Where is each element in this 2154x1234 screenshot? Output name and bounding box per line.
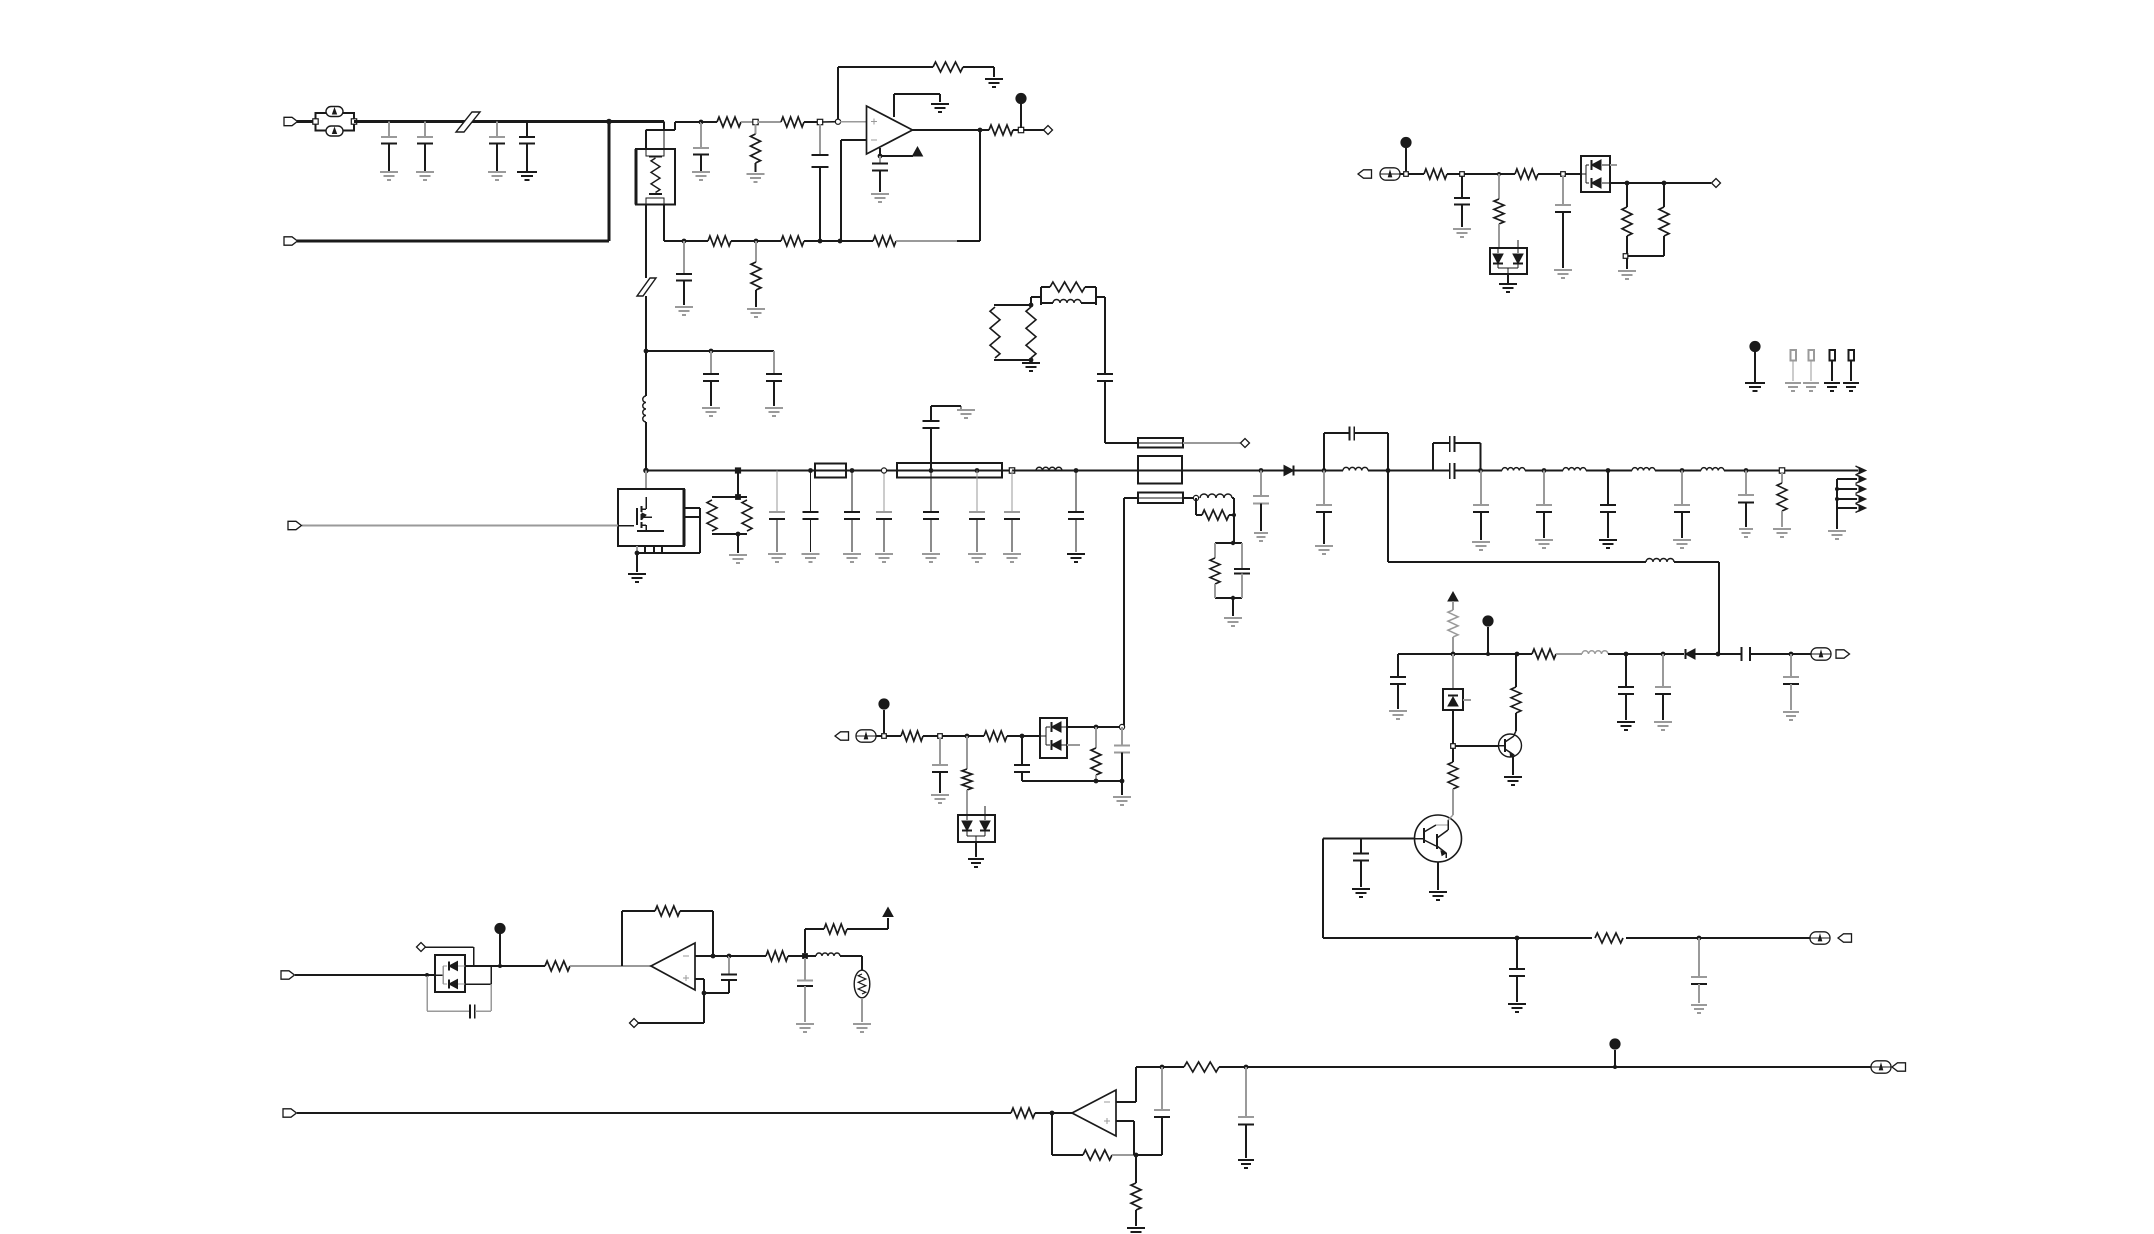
resistor R28 <box>1595 933 1623 943</box>
resistor R27 <box>1532 649 1556 659</box>
ground <box>1508 1004 1526 1012</box>
junction <box>709 349 714 354</box>
wire <box>663 122 665 131</box>
capacitor C34 <box>932 738 948 793</box>
node <box>1561 172 1566 177</box>
wire (Q2 emitter) <box>1512 757 1514 776</box>
capacitor (bus cap x=852) <box>844 471 860 553</box>
junction <box>1134 1153 1139 1158</box>
ground <box>1673 540 1691 548</box>
resistor R18 <box>1777 473 1787 527</box>
junction <box>1697 936 1702 941</box>
wire <box>465 966 491 984</box>
port P6 <box>1838 934 1852 942</box>
wire <box>1556 653 1582 655</box>
junction <box>878 154 883 159</box>
ground <box>765 408 783 416</box>
resistor R21 <box>1515 169 1538 179</box>
junction <box>1478 468 1483 473</box>
resistor R1 (boxed element) <box>636 130 675 205</box>
inductor L9 <box>1632 468 1655 471</box>
wire <box>963 67 994 77</box>
wire <box>704 992 729 994</box>
fuse/filter F1 (dual-element box) <box>313 107 357 137</box>
junction <box>1120 779 1125 784</box>
capacitor (bus cap x=1076) <box>1068 471 1084 553</box>
capacitor C1 <box>381 122 397 172</box>
node <box>736 495 741 537</box>
wire <box>861 998 863 1022</box>
node <box>817 119 822 124</box>
junction <box>838 239 843 244</box>
wire (bus segment) <box>1525 470 1563 472</box>
port (diamond) <box>1712 179 1721 188</box>
wire <box>1322 839 1324 939</box>
junction <box>1322 468 1327 473</box>
inductor L8 <box>1563 468 1586 471</box>
wire (bus segment) <box>646 470 1138 472</box>
wire (bus segment) <box>1182 470 1285 472</box>
bypass loop C16 <box>1324 427 1388 471</box>
ground <box>1003 554 1021 562</box>
junction <box>1386 468 1391 473</box>
wire (Q3 base net) <box>1323 838 1415 840</box>
port P7 <box>835 732 849 740</box>
wire (bus segment) <box>1368 470 1450 472</box>
wire <box>923 735 984 737</box>
wire <box>295 974 435 976</box>
wire (thick return net) <box>297 240 609 243</box>
junction <box>1160 1065 1165 1070</box>
wire <box>1121 781 1123 795</box>
junction <box>965 734 970 739</box>
node <box>736 468 741 473</box>
capacitor C11 (above shunt) <box>923 406 962 471</box>
ground <box>1224 618 1242 626</box>
wire <box>695 979 704 993</box>
ground <box>875 554 893 562</box>
capacitor C29 <box>1655 654 1671 720</box>
junction <box>635 551 640 556</box>
junction <box>727 954 732 959</box>
wire <box>570 965 651 967</box>
ground <box>1352 889 1370 897</box>
resistor R9 <box>781 236 804 246</box>
ground <box>1429 892 1447 900</box>
ground <box>747 309 765 317</box>
wire <box>804 121 820 123</box>
wire <box>1116 1121 1134 1155</box>
resistor R23 <box>1659 183 1669 256</box>
wire <box>1035 1112 1072 1114</box>
wire <box>1400 173 1424 175</box>
node <box>753 119 758 124</box>
resistor R20 <box>1494 174 1504 248</box>
wire <box>297 1112 1011 1114</box>
resistor R36 <box>805 924 888 953</box>
ground <box>1535 540 1553 548</box>
wire <box>1067 727 1122 745</box>
resistor R7 <box>708 236 731 246</box>
wire <box>636 553 638 572</box>
ground <box>1824 383 1840 391</box>
wire <box>646 350 774 352</box>
resistor R4 <box>781 117 804 127</box>
wire <box>1447 173 1515 175</box>
resistor R8 <box>751 241 761 307</box>
ground <box>1315 546 1333 554</box>
wire <box>1674 562 1719 654</box>
resistor R26 <box>1448 748 1458 815</box>
wire (top row jog) <box>646 122 675 130</box>
wire (bus segment) <box>1724 470 1858 472</box>
junction <box>1074 468 1079 473</box>
wire (source pins) <box>637 546 700 553</box>
wire <box>737 471 739 498</box>
test point TP3 <box>1830 350 1836 381</box>
wire (U1 top supply) <box>894 94 940 117</box>
junction <box>1661 652 1666 657</box>
resistor R10 (feedback) <box>873 236 896 246</box>
wire <box>741 121 756 123</box>
ferrite bead FB1 <box>456 112 480 132</box>
wire <box>1096 297 1105 374</box>
fuse F2 <box>815 464 846 478</box>
power tap <box>1015 93 1026 128</box>
junction <box>643 468 649 474</box>
capacitor C32 <box>1509 938 1525 1002</box>
wire <box>731 240 781 242</box>
op-amp U3 <box>1072 1090 1116 1136</box>
inductor L10 <box>1701 468 1724 471</box>
test point TP4 <box>1849 350 1855 381</box>
power tap <box>494 923 505 964</box>
capacitor C31 <box>1783 654 1799 710</box>
junction <box>1680 468 1685 473</box>
probe (current) <box>1871 1061 1891 1073</box>
capacitor C27 <box>1353 839 1369 888</box>
ground <box>1803 383 1819 391</box>
inductor L7 <box>1502 468 1525 471</box>
ground <box>796 1024 814 1032</box>
capacitor (bus cap x=931) <box>923 471 939 553</box>
capacitor C7 <box>693 122 709 171</box>
diode pair D7 (boxed) <box>1040 718 1067 758</box>
node <box>1231 541 1235 545</box>
wire (bus segment) <box>1586 470 1632 472</box>
wire <box>758 121 781 123</box>
op-amp U1 <box>867 106 913 154</box>
inductor L2 <box>1036 467 1062 470</box>
junction <box>1094 725 1099 730</box>
junction <box>1232 513 1236 517</box>
capacitor C28 <box>1618 654 1634 720</box>
junction <box>702 991 707 996</box>
probe (current) <box>1810 932 1830 944</box>
ground <box>1554 270 1572 278</box>
capacitor C23 <box>1738 471 1754 528</box>
transformer T1 aux winding <box>1138 438 1183 448</box>
junction <box>1451 652 1456 657</box>
wire <box>737 534 739 553</box>
junction <box>754 239 759 244</box>
capacitor (bus cap x=777) <box>769 471 785 553</box>
resistor R33 <box>545 961 570 971</box>
resistor R39 <box>1131 1155 1141 1226</box>
ground <box>1504 777 1522 785</box>
wire <box>876 735 901 737</box>
ground (earth) <box>517 172 537 180</box>
capacitor C9 <box>872 156 888 192</box>
ferrite bead FB2 <box>637 278 656 296</box>
junction <box>818 239 823 244</box>
RC network R17/C13 <box>1210 543 1250 598</box>
capacitor C38 <box>721 956 737 993</box>
wire <box>1030 297 1032 305</box>
resistor R31 <box>984 731 1007 741</box>
res/ind pair R13/L3 <box>1041 282 1096 305</box>
power tap TP0 <box>1749 341 1760 382</box>
junction <box>1486 652 1490 656</box>
junction <box>975 468 980 473</box>
zener D4 (boxed) <box>1443 654 1471 746</box>
resistor R32 <box>1091 727 1101 781</box>
junction <box>1231 596 1235 600</box>
bus output arrow <box>1856 466 1867 475</box>
diode pair D8 (boxed) <box>427 955 465 992</box>
junction <box>978 128 983 133</box>
capacitor C22 <box>1674 471 1690 539</box>
ground <box>1745 383 1765 391</box>
node <box>1460 172 1465 177</box>
inductor L6 <box>1646 559 1674 562</box>
ground <box>416 172 434 180</box>
ground <box>628 574 646 582</box>
ground <box>692 172 710 180</box>
junction <box>699 120 704 125</box>
node <box>803 954 808 959</box>
junction <box>1613 1065 1617 1069</box>
capacitor C36 <box>1114 727 1130 781</box>
capacitor C15 <box>1316 471 1332 545</box>
capacitor C37 (series) <box>427 976 491 1019</box>
capacitor C6 <box>766 351 782 406</box>
junction <box>1029 358 1034 363</box>
power arrow <box>883 908 893 930</box>
port P4 <box>1358 170 1372 178</box>
wire <box>896 240 980 242</box>
ground <box>1499 284 1517 292</box>
port P8 <box>281 971 295 979</box>
junction <box>1716 652 1721 657</box>
thermistor RT1 <box>854 970 870 998</box>
junction <box>1020 734 1025 739</box>
ground <box>968 859 984 867</box>
power tap <box>1482 615 1493 654</box>
junction <box>1789 652 1794 657</box>
inductor L4 <box>1200 494 1232 498</box>
junction <box>606 119 612 125</box>
resistor R2 <box>717 117 741 127</box>
ground <box>380 172 398 180</box>
ground <box>922 554 940 562</box>
node <box>1451 744 1456 749</box>
node <box>1497 172 1501 176</box>
diode pair D3 (boxed) <box>1581 156 1617 192</box>
ground <box>702 408 720 416</box>
node <box>1404 172 1409 177</box>
ground <box>1022 363 1040 371</box>
wire <box>1012 470 1076 472</box>
port P10 <box>1892 1063 1906 1071</box>
wire <box>1229 498 1234 543</box>
ground <box>1691 1005 1707 1013</box>
resistor R16 <box>1202 510 1229 520</box>
wire <box>1031 287 1041 305</box>
junction <box>808 468 813 473</box>
ground <box>1453 229 1471 237</box>
node <box>1018 127 1023 132</box>
junction <box>1624 652 1629 657</box>
capacitor (bus cap x=810.5) <box>803 471 819 553</box>
feedback R38 <box>1052 1113 1136 1160</box>
ground <box>675 307 693 315</box>
ground <box>843 554 861 562</box>
resistor R35 <box>729 951 805 961</box>
wire (row y938) <box>1323 937 1810 939</box>
wire <box>1124 498 1138 727</box>
wire <box>1007 735 1040 737</box>
node <box>881 468 886 473</box>
wire (inverting input) <box>841 140 867 241</box>
probe (current) <box>1380 168 1400 180</box>
capacitor C33 <box>1691 938 1707 1003</box>
resistor R24 <box>1448 601 1458 654</box>
capacitor (bus cap x=977) <box>969 471 985 553</box>
capacitor C39 <box>797 958 813 1022</box>
junction <box>682 239 687 244</box>
resistor R22 <box>1622 183 1632 254</box>
shunt (long box) <box>897 463 1002 478</box>
resistor R29 <box>901 731 923 741</box>
diode D1 <box>1284 466 1294 476</box>
capacitor (bus cap x=884) <box>876 471 892 553</box>
power arrow <box>1448 592 1458 601</box>
node <box>835 119 840 124</box>
wire <box>645 296 647 351</box>
transformer T1 primary <box>1138 456 1182 484</box>
capacitor C12 <box>1097 374 1113 381</box>
wire <box>646 130 664 241</box>
wire <box>465 965 545 967</box>
power tap <box>878 698 889 733</box>
capacitor C4 <box>519 122 535 172</box>
capacitor C3 <box>489 122 505 172</box>
wire <box>861 956 863 970</box>
wire <box>1183 442 1240 444</box>
capacitor C10 <box>676 241 692 305</box>
MOSFET Q1 (boxed) <box>618 489 684 546</box>
ground <box>1783 712 1799 720</box>
resistor pair R14/R15 <box>990 305 1036 360</box>
wire <box>701 121 717 123</box>
resistor R19 <box>1424 169 1447 179</box>
ground <box>1785 383 1801 391</box>
junction <box>1662 181 1667 186</box>
wire (row y1067) <box>1136 1066 1184 1068</box>
test point TP2 <box>1809 350 1815 381</box>
wire (bus segment) <box>1655 470 1701 472</box>
wire (Q3 emitter) <box>1437 862 1439 890</box>
wire (row B) <box>664 240 708 242</box>
wire <box>1136 1154 1162 1156</box>
wire <box>645 471 647 490</box>
feedback R34 <box>622 906 713 966</box>
wire <box>1116 1067 1136 1102</box>
wire (thick vertical) <box>608 122 611 242</box>
capacitor C25 <box>1555 176 1571 268</box>
resistor pair R11/R12 <box>707 497 752 534</box>
resistor R3 <box>751 124 761 172</box>
resistor R30 <box>962 736 972 815</box>
port P2 (bottom-left of pair) <box>284 237 298 245</box>
junction <box>1244 1065 1249 1070</box>
capacitor C8 <box>812 124 829 241</box>
junction <box>1259 468 1264 473</box>
port P3 <box>288 521 302 529</box>
wire (drain pins) <box>684 508 700 553</box>
ground <box>1739 529 1753 537</box>
resistor R40 <box>1184 1062 1219 1072</box>
node <box>1119 724 1124 729</box>
power tap <box>1609 1038 1620 1067</box>
junction <box>1029 303 1034 308</box>
wire <box>1183 497 1196 499</box>
wire <box>297 120 316 123</box>
wire <box>1013 129 1044 131</box>
node <box>1623 254 1628 259</box>
ground <box>1828 531 1846 539</box>
wire <box>1232 598 1234 616</box>
op-amp U2 <box>651 943 695 990</box>
ground <box>488 172 506 180</box>
ground <box>1238 1160 1254 1168</box>
wire <box>1196 498 1202 515</box>
wire (row y654) <box>1398 653 1532 655</box>
junction <box>1050 1111 1055 1116</box>
wire <box>804 240 873 242</box>
transistor Q3 (darlington) <box>1415 815 1462 862</box>
ground <box>1618 271 1636 279</box>
ground <box>853 1024 871 1032</box>
junction <box>1625 181 1630 186</box>
capacitor C14 <box>1253 471 1269 532</box>
junction <box>711 954 716 959</box>
capacitor C2 <box>417 122 433 172</box>
transistor Q2 <box>1499 734 1522 757</box>
wire <box>822 121 838 123</box>
port (diamond) <box>1241 439 1250 448</box>
node <box>1779 468 1784 473</box>
capacitor (bus cap x=1012) <box>1004 471 1020 553</box>
wire <box>1610 182 1711 184</box>
resistor R6 <box>989 125 1013 135</box>
capacitor C30 (series) <box>1742 647 1751 661</box>
ground <box>1599 540 1617 548</box>
wire (row A) <box>675 121 701 123</box>
test point TP1 <box>1791 350 1797 381</box>
capacitor C41 <box>1238 1067 1254 1158</box>
